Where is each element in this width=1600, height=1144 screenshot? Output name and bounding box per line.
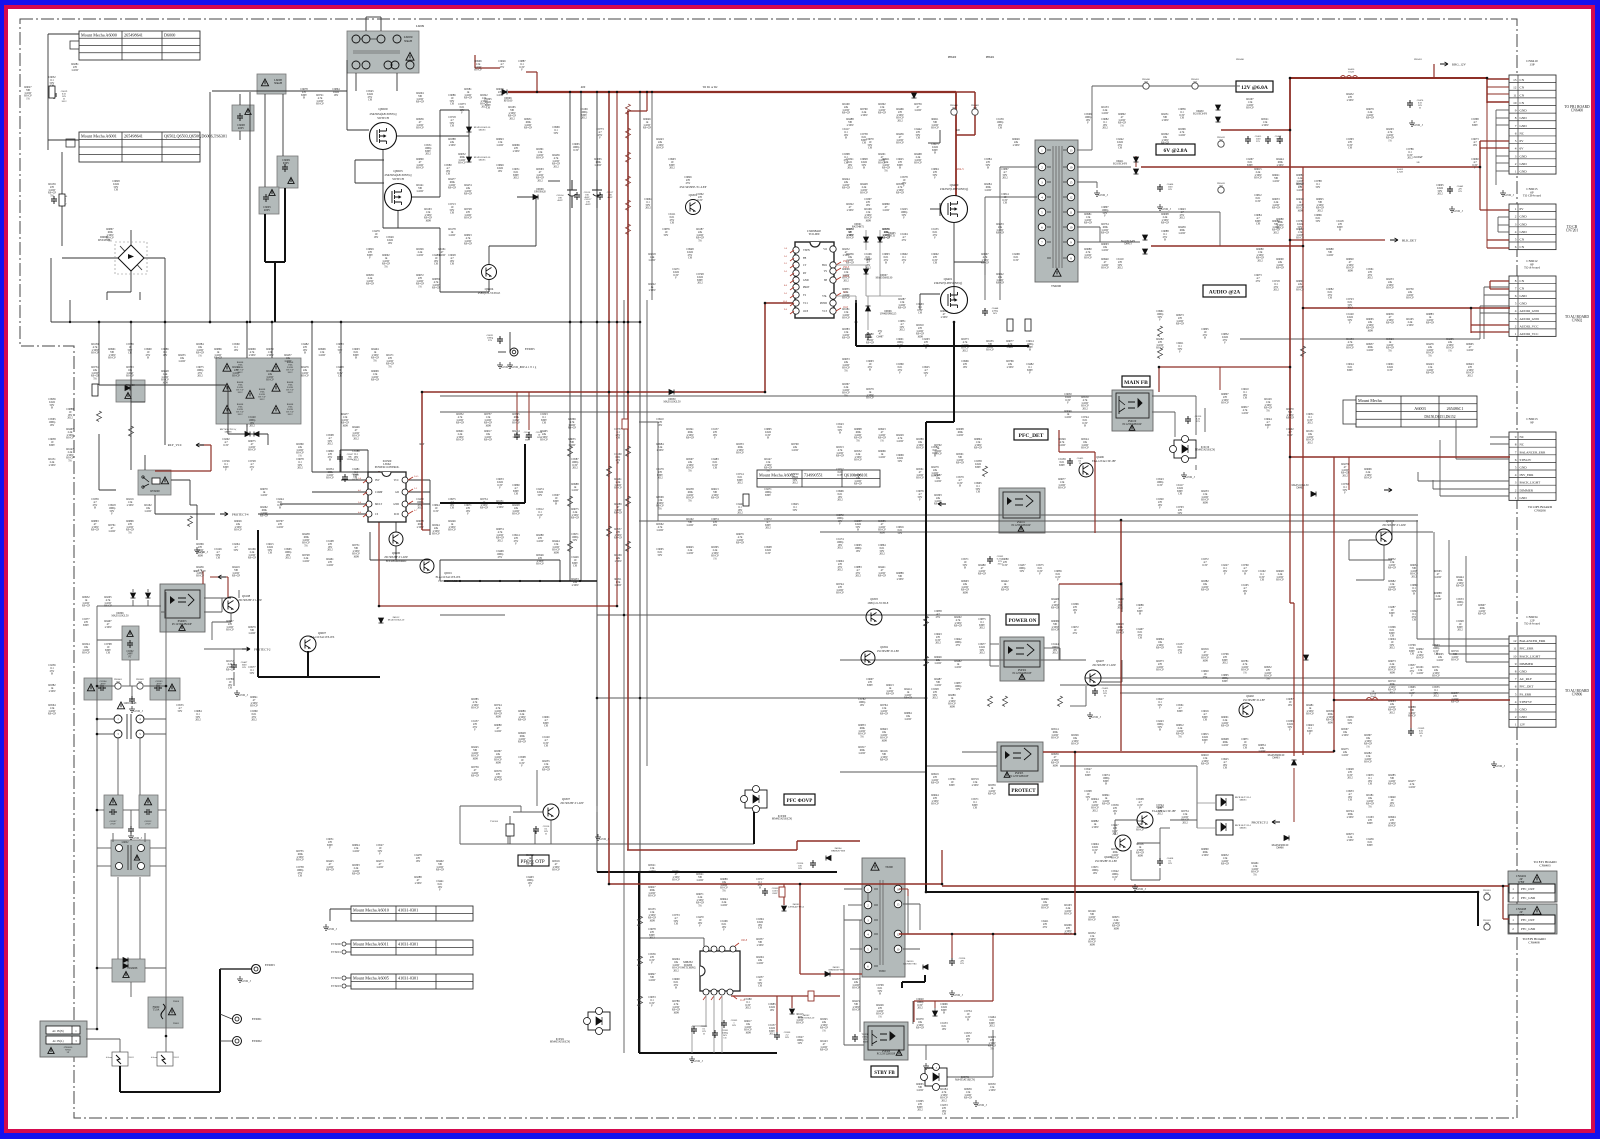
wire [903,903,920,905]
mosfet Q6401 [941,287,968,314]
wire [227,385,229,434]
wire [212,621,231,623]
red wire [422,529,430,531]
svg-text:AUDIO @2A: AUDIO @2A [1209,290,1241,296]
relay RY6000 [138,470,171,495]
red wire [1487,239,1509,241]
wire [459,806,461,844]
transistor Q6307 [543,804,559,820]
capacitor [144,809,152,815]
svg-text:VC1: VC1 [803,302,809,305]
svg-text:R6556100k1/10WRS+CP: R6556100k1/10WRS+CP [882,228,891,240]
wire [1114,820,1116,835]
svg-text:R604222kL16WRS+CP: R604222kL16WRS+CP [996,273,1005,285]
red wire [516,392,518,430]
wire [130,810,132,827]
svg-text:R638210kL10WRS+CP: R638210kL10WRS+CP [1201,580,1210,592]
svg-text:R617422kL10WRS-CP: R617422kL10WRS-CP [266,370,274,382]
wire [1456,458,1509,460]
wire [147,589,149,592]
svg-text:R69674.7k1/10WRS+CP: R69674.7k1/10WRS+CP [981,253,990,265]
wire [867,893,869,901]
diode D6413b [1143,249,1148,254]
svg-text:4.0mm: 4.0mm [151,1057,157,1059]
wire [221,598,223,612]
table A6010 [351,906,473,921]
wire [984,262,986,275]
svg-text:CN: CN [1520,93,1525,97]
capacitor [762,888,768,896]
warning triangle [1533,875,1541,883]
svg-text:2SC3052EF-T1-LEF: 2SC3052EF-T1-LEF [560,802,584,805]
red wire [202,571,204,584]
wire [1496,162,1509,164]
capacitor [774,1032,780,1040]
svg-text:R69321kL10WRS+CP: R69321kL10WRS+CP [82,596,91,608]
red wire [608,92,610,884]
transistor Q6504 [482,265,497,280]
svg-text:L6001 9uH: L6001 9uH [124,702,137,705]
svg-text:12: 12 [1513,86,1517,90]
AC inlet CN6000 [40,1021,87,1057]
svg-text:GND_J: GND_J [927,1066,937,1070]
svg-text:VS: VS [824,270,828,273]
svg-text:GND: GND [1520,715,1528,719]
wire [440,135,469,137]
resistor fusible [779,887,785,897]
red wire [1480,147,1509,149]
wire [119,1051,121,1053]
wire [280,503,341,505]
wire [130,257,132,259]
wire [597,614,990,616]
ground [1491,761,1497,767]
capacitor bulk [567,180,577,208]
wire [412,196,440,198]
wire [139,738,141,795]
wire [120,246,142,270]
label PFC ΦOVP [784,794,815,805]
wire [926,765,962,767]
svg-text:FEEDFORWARD: FEEDFORWARD [438,580,457,583]
wire [47,34,49,150]
svg-text:R637010k1/10WRS+CP: R637010k1/10WRS+CP [916,1018,925,1030]
capacitor [1408,728,1414,736]
svg-text:GND_J: GND_J [133,709,143,713]
svg-text:R607547L10WRS-CP: R607547L10WRS-CP [248,440,256,452]
op-amp IC6500 power control [368,472,406,522]
wire [843,905,845,1045]
wire [233,672,235,686]
wire [1496,117,1509,119]
svg-text:2SB1(121-3T-TD-E: 2SB1(121-3T-TD-E [868,602,889,605]
capacitor [129,696,135,704]
red wire [1490,280,1509,282]
svg-text:2: 2 [1515,324,1517,328]
capacitor C6008 box [232,105,254,131]
inductor L6430 [1340,76,1358,79]
svg-text:PB6400: PB6400 [948,56,957,59]
wire [1137,842,1160,844]
zener ICX150 [1174,440,1196,458]
label STBY FB [871,1066,898,1077]
wire [919,294,921,310]
svg-text:R69821.5kL16WRS+CP: R69821.5kL16WRS+CP [1388,580,1397,592]
warning triangle [123,972,129,978]
svg-text:R6285330L16WRS+CP: R6285330L16WRS+CP [1388,774,1397,786]
svg-text:Q6504: Q6504 [485,287,494,291]
transistor Q6108 [223,597,239,613]
wire [840,659,1086,661]
red wire [951,934,953,958]
svg-text:4: 4 [1515,473,1517,477]
svg-text:VSL: VSL [822,295,827,298]
diode D6402 [1311,492,1316,497]
red wire [508,91,956,93]
zener ICX701 [925,1068,947,1086]
svg-text:R65322.2k1/10WRS-CP: R65322.2k1/10WRS-CP [854,450,862,462]
capacitor C6009 box [277,156,298,188]
svg-text:R6627100kL10WRS-CP: R6627100kL10WRS-CP [648,886,656,898]
svg-text:R610022kL10WRS+CP: R610022kL10WRS+CP [842,103,851,115]
table A6005 [351,974,473,989]
wire [406,491,430,493]
opto PS6100 MAIN FB [1112,390,1153,431]
svg-text:A6003: A6003 [1414,406,1425,411]
inductor FB6430 [1143,83,1149,89]
svg-text:5: 5 [1515,465,1517,469]
wire [1044,647,1060,649]
wire [395,522,397,532]
warning triangle [1053,269,1061,277]
wire [1479,306,1481,339]
svg-text:R67214.7kL10WRS-CP: R67214.7kL10WRS-CP [316,94,324,106]
red wire [421,392,423,530]
wire [365,17,367,31]
wire [488,279,490,292]
wire [96,606,98,1029]
wire [1433,488,1509,490]
svg-text:R68594.7kL10WRS+CP: R68594.7kL10WRS+CP [432,278,441,290]
wire [713,996,715,1040]
svg-text:R60082.2k1/10WRS+CP: R60082.2k1/10WRS+CP [1161,213,1170,225]
wire [990,643,999,645]
svg-text:AC IN(L): AC IN(L) [52,1040,63,1043]
svg-text:4: 4 [1515,309,1517,313]
wire [147,600,149,606]
capacitor [574,192,580,200]
svg-text:R680310kL16WRS+CP: R680310kL16WRS+CP [854,474,863,486]
svg-text:SB: SB [824,279,827,282]
wire [999,167,1001,300]
svg-text:GND: GND [803,279,809,282]
connector CN6012 [1509,276,1556,336]
warning triangle [245,109,251,115]
svg-text:R68831kL10WRS+CP: R68831kL10WRS+CP [1426,313,1435,325]
svg-text:R62964701/10WRS-CP: R62964701/10WRS-CP [1064,924,1072,936]
line filter cap boxes C6304/C6303 [84,678,112,700]
svg-text:PFC_GND: PFC_GND [1521,896,1536,900]
capacitor [342,474,348,482]
warning triangle [1019,674,1025,679]
ground [194,547,200,553]
svg-text:6: 6 [1515,294,1517,298]
svg-text:2SC3052EF-T1-LEP: 2SC3052EF-T1-LEP [384,556,408,559]
wire [1448,540,1450,654]
terminal ET6001 [342,950,346,954]
wire [341,503,368,505]
wire [119,1039,121,1052]
wire [122,605,148,607]
svg-text:Q6407: Q6407 [1096,659,1105,663]
wire [1043,751,1066,753]
wire [517,196,536,198]
svg-text:11: 11 [1513,647,1517,651]
svg-text:ET6002: ET6002 [331,976,341,980]
svg-text:265498641: 265498641 [124,134,143,139]
svg-text:5: 5 [1515,139,1517,143]
svg-text:Mount Mecha A6011: Mount Mecha A6011 [353,942,389,947]
wire [488,246,490,265]
svg-text:CT: CT [803,264,807,267]
red wire [1135,156,1137,167]
svg-text:6: 6 [1515,245,1517,249]
net PROTECT-3 [938,502,946,506]
svg-text:R634422k1/10WRS-CP: R634422k1/10WRS-CP [432,524,440,536]
svg-text:R6135330L16WRS-CP: R6135330L16WRS-CP [986,340,994,352]
ground [129,706,135,712]
warning triangle [48,1048,54,1054]
ground [1449,206,1455,212]
wire [460,805,521,807]
wire [112,833,114,842]
svg-text:2x100uF: 2x100uF [1413,156,1423,159]
wire [984,197,986,300]
svg-text:PS_ERR: PS_ERR [1520,692,1533,696]
svg-text:Q6307: Q6307 [562,797,571,801]
svg-text:23K3567(L08T5ONY,Q): 23K3567(L08T5ONY,Q) [940,188,968,191]
warning triangle [179,625,185,631]
svg-text:R6951100kL16WRS+CP: R6951100kL16WRS+CP [524,118,533,130]
svg-text:Mount Mecha A6001: Mount Mecha A6001 [81,134,117,139]
svg-text:GND: GND [1520,230,1528,234]
red wire [765,302,793,304]
warning triangle [1004,772,1010,777]
svg-text:R6373470L16WRS-CP: R6373470L16WRS-CP [1156,660,1164,672]
op-amp IC6200 switching regulator [700,951,740,991]
wire thick [926,421,954,423]
red wire [1479,141,1481,167]
terminal ET6000 [342,942,346,946]
table A6001 bracket [66,139,75,147]
wire [233,649,235,662]
connector CN6034 [1509,636,1556,727]
warning triangle [896,1050,902,1055]
svg-text:CN: CN [1520,287,1525,291]
wire [396,73,398,91]
warning triangle [117,702,124,709]
svg-text:L6002: L6002 [122,841,129,844]
red wire [1487,101,1509,103]
wire [657,422,659,521]
warning triangle [223,364,231,372]
svg-text:R63391kL10WRS+CP: R63391kL10WRS+CP [988,784,997,796]
wire [150,865,166,867]
wire [1416,520,1418,639]
red wire [227,577,229,598]
warning triangle [1018,526,1024,531]
svg-text:VC3: VC3 [822,310,828,313]
svg-text:R601710kL16WRS+CP: R601710kL16WRS+CP [484,430,493,442]
svg-text:PB6430: PB6430 [1236,58,1245,61]
svg-text:GND_J: GND_J [1098,193,1108,197]
ground [234,690,240,696]
svg-text:R69961.5kL10WRS-CP: R69961.5kL10WRS-CP [474,60,482,72]
wire [204,597,231,599]
wire [139,292,141,300]
wire [859,920,861,1032]
op-amp IC6600 controller [795,242,834,318]
warning triangle [125,393,131,399]
svg-text:R66521.5kL16WRS+CP: R66521.5kL16WRS+CP [1221,854,1230,866]
ground [1500,190,1506,196]
svg-text:2SC3052EF-T1-LEP: 2SC3052EF-T1-LEP [238,599,262,602]
wire [989,615,991,666]
wire [355,73,357,91]
wire [1348,540,1350,560]
svg-text:R61662.2kL10WRS+CP: R61662.2kL10WRS+CP [248,548,257,560]
svg-text:R66152.2k1/10WRS-CP: R66152.2k1/10WRS-CP [1254,168,1262,180]
svg-text:PFC_ERR: PFC_ERR [1520,647,1535,651]
diode D6405 [878,237,883,242]
wire [1434,645,1509,647]
wire thick [264,214,266,262]
svg-text:R63694.7kL16WRS+CP: R63694.7kL16WRS+CP [568,418,577,430]
red wire [1094,452,1096,533]
resistor [743,494,749,506]
svg-text:R6402330L16WRS+CP: R6402330L16WRS+CP [436,860,445,872]
svg-text:INV_ERR: INV_ERR [1520,473,1535,477]
red wire [810,995,840,997]
terminal ET6002 [342,976,346,980]
wire [844,1044,864,1046]
svg-text:BLK_DET: BLK_DET [1402,238,1416,242]
svg-text:6: 6 [1515,458,1517,462]
wire [239,131,241,140]
diode D6505 [467,157,472,162]
warning resistor bank box [216,358,301,424]
wire [1131,879,1160,881]
svg-text:9: 9 [1515,109,1517,113]
wire [1077,241,1140,243]
svg-text:R624422kL10WRS+CP: R624422kL10WRS+CP [842,178,851,190]
red wire [1433,64,1435,78]
wire [992,1045,994,1077]
svg-text:GND_J: GND_J [1495,764,1505,768]
wire [397,135,440,137]
svg-text:Q6403: Q6403 [1386,519,1395,523]
wire [355,182,384,184]
wire [596,806,598,812]
ground [1181,472,1187,478]
svg-text:Mount Mecha: Mount Mecha [1358,398,1382,403]
wire [1091,86,1093,150]
svg-text:R622822kL16WRS-CP: R622822kL16WRS-CP [512,504,520,516]
svg-text:STBY FB: STBY FB [874,1071,895,1076]
wire [947,1076,993,1078]
diode D6502 [864,269,869,274]
svg-text:R61032.2kL10WRS-CP: R61032.2kL10WRS-CP [1064,904,1072,916]
wire [165,592,167,1036]
svg-text:R65791k1/10WRS-CP: R65791k1/10WRS-CP [866,388,874,400]
transistor Q6402 [1239,703,1253,717]
svg-text:NC: NC [1520,443,1525,447]
svg-text:12V @6.0A: 12V @6.0A [1241,85,1268,91]
wire [1059,659,1086,661]
wire [489,245,536,247]
svg-text:R656147L10WRS-CP: R656147L10WRS-CP [916,468,924,480]
red wire [474,55,476,68]
red wire [934,1001,936,1008]
red wire [1487,78,1509,80]
wire [1418,480,1509,482]
svg-text:400: 400 [581,85,586,89]
wire [985,196,1037,198]
svg-text:VSEN: VSEN [803,249,810,252]
svg-text:CXD9841PTC6-000: CXD9841PTC6-000 [807,229,821,236]
red wire [731,995,810,997]
svg-text:2: 2 [1515,488,1517,492]
svg-text:GND_J: GND_J [953,993,963,997]
wire [1058,584,1060,660]
wire [429,480,431,535]
terminal ET6001 [233,1015,242,1024]
ground [507,362,513,368]
wire [440,559,560,561]
capacitor [1067,458,1073,466]
svg-text:R68024.7k1/10WRS-CP: R68024.7k1/10WRS-CP [1416,648,1424,660]
red wire [800,973,862,975]
svg-text:R645722kL16WRS-CP: R645722kL16WRS-CP [852,978,860,990]
warning triangle [87,684,94,691]
wire [1159,828,1161,860]
svg-text:R64811k1/10WRS-CP: R64811k1/10WRS-CP [1306,704,1314,716]
wire [382,150,384,160]
svg-text:TS6000: TS6000 [1051,284,1062,288]
svg-text:3: 3 [1515,481,1517,485]
capacitor [1447,186,1453,194]
svg-text:R6057470L16WRS+CP: R6057470L16WRS+CP [1451,692,1460,704]
svg-text:CN: CN [1520,86,1525,90]
diode D6530 [669,390,674,395]
connector CN6013 [1509,432,1556,500]
diode D6008b [245,432,250,437]
diode D6413 [1143,235,1148,240]
svg-text:L64524.7uH: L64524.7uH [1397,168,1404,173]
svg-text:GND_J: GND_J [1504,193,1514,197]
svg-text:CN: CN [1520,279,1525,283]
wire [164,322,166,445]
red wire [1487,86,1509,88]
svg-text:L600830kuH: L600830kuH [274,78,283,85]
red wire [1141,166,1480,168]
wire [1484,294,1509,296]
wire thick [265,261,285,263]
warning triangle [261,79,268,86]
wire [311,322,313,472]
svg-text:BACK_LIGHT: BACK_LIGHT [1520,654,1541,658]
svg-text:R6735100k1/10WRS-CP: R6735100k1/10WRS-CP [296,850,304,862]
